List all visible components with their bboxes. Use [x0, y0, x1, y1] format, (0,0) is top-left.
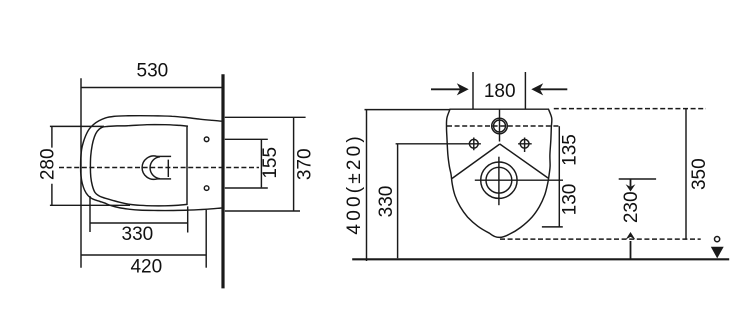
svg-text:180: 180	[484, 81, 516, 102]
dim 230 up arrow	[626, 232, 636, 259]
dim 420 line	[81, 254, 206, 256]
inlet vertical centerline	[499, 109, 501, 141]
floor line	[352, 258, 729, 260]
dim 135-130 line	[558, 126, 560, 227]
top dashed reference line	[554, 108, 706, 110]
dim 330 plan line	[90, 222, 188, 224]
dim 280 line	[51, 126, 53, 205]
svg-text:135: 135	[560, 134, 581, 166]
trap arc outer	[142, 156, 157, 179]
svg-text:420: 420	[130, 257, 162, 278]
dim 155 top tick	[225, 138, 268, 140]
floor datum triangle	[711, 247, 724, 259]
mounting hole right crosshair	[518, 138, 532, 153]
dim 130 bottom tick	[542, 226, 563, 228]
svg-text:330: 330	[122, 224, 154, 245]
drain circle inner	[486, 167, 512, 193]
dim 530 line	[81, 87, 222, 89]
dim 420 right extension	[205, 210, 207, 268]
svg-text:280: 280	[38, 148, 59, 180]
dim 330 rear top extension	[396, 143, 468, 145]
dim 230 top tick	[619, 178, 656, 180]
bottom dashed reference line	[500, 238, 701, 240]
dim 370 line	[293, 117, 295, 211]
trap bottom line	[157, 178, 171, 180]
svg-text:400(±20): 400(±20)	[344, 133, 365, 235]
dim 400 top extension	[365, 109, 451, 111]
svg-text:330: 330	[376, 186, 397, 218]
trap top line	[157, 155, 171, 157]
dim 155 line	[260, 140, 262, 188]
drain circle outer	[481, 162, 517, 198]
wall line	[221, 74, 224, 288]
floor datum circle	[715, 237, 720, 242]
dim 155 bottom tick	[225, 187, 268, 189]
body outline (rear)	[446, 109, 551, 237]
svg-text:230: 230	[621, 191, 642, 223]
dim 350 line	[685, 109, 687, 240]
mounting hole right (rear)	[520, 139, 529, 148]
mounting hole top (plan)	[204, 137, 209, 142]
dim 330 plan left extension	[89, 196, 91, 232]
dim 330 plan right extension	[187, 206, 189, 232]
dim 370 top tick	[225, 116, 306, 118]
dim 280 top tick	[50, 125, 104, 127]
svg-text:530: 530	[137, 61, 169, 82]
inlet dashed centerline	[447, 125, 559, 127]
trap vertical line	[167, 160, 169, 177]
dim 180 left arrow	[431, 83, 469, 95]
V line left	[452, 144, 500, 179]
dim 330 rear line	[397, 144, 399, 258]
drain horizontal crosshair / 130-135 mid tick	[475, 179, 563, 181]
dim 530/420 left extension	[80, 78, 82, 267]
mounting hole left crosshair	[467, 138, 481, 151]
trap arc inner	[150, 157, 160, 179]
inlet circle inner	[494, 120, 506, 132]
svg-text:350: 350	[689, 158, 710, 190]
svg-text:155: 155	[260, 147, 281, 179]
inner rim outline	[90, 125, 188, 206]
dim 180 right extension	[524, 72, 526, 109]
mounting hole bottom (plan)	[204, 186, 209, 191]
dim 400 line	[366, 110, 368, 261]
svg-text:370: 370	[295, 148, 316, 180]
outer bowl outline	[81, 116, 222, 211]
dim 230 down arrow	[626, 179, 636, 192]
centerline (plan)	[59, 167, 259, 169]
dim 180 right arrow	[531, 83, 567, 95]
V line right	[500, 144, 548, 178]
drain vertical crosshair	[498, 157, 500, 206]
dim 370 bottom tick	[225, 210, 300, 212]
svg-text:130: 130	[560, 184, 581, 216]
dim 280 bottom tick	[50, 204, 130, 206]
inlet circle outer	[492, 118, 508, 134]
dim 180 left extension	[472, 72, 474, 109]
mounting hole left (rear)	[469, 139, 478, 148]
